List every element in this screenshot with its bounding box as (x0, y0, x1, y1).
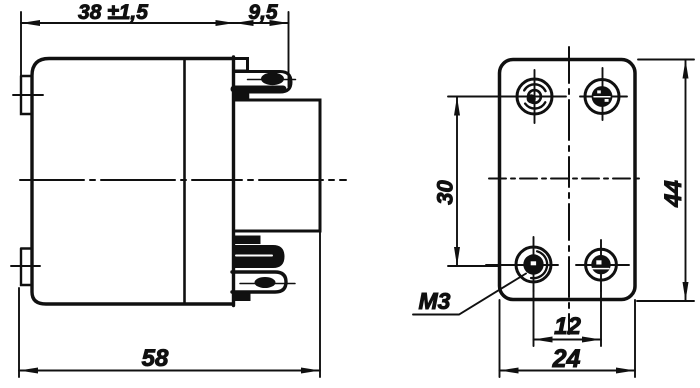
hole bottom-left : cross lines (486, 264, 558, 266)
thread callout M3 : leader line (413, 274, 526, 315)
bottom tab centre tick (11, 265, 40, 267)
hole top-left : dark spot (527, 94, 536, 103)
hole bottom-right : outer circle (586, 249, 617, 280)
svg-text:24: 24 (552, 345, 581, 373)
rear pin A (upper) (234, 247, 283, 267)
dimension 44 : extension bottom (637, 300, 694, 302)
dimension 58 : extension line right (319, 231, 321, 377)
dimension 58 : dimension line (19, 370, 320, 372)
dimension 58 : extension line left (18, 288, 20, 377)
top contact pin (234, 72, 291, 93)
horizontal centre line of side view (20, 179, 346, 181)
dimension 9,5 : extension line right (288, 12, 290, 87)
svg-text:9,5: 9,5 (248, 1, 278, 24)
small lug under top pin (234, 94, 249, 101)
rear pin B hole (dark oval) (255, 277, 276, 288)
svg-text:58: 58 (142, 345, 169, 372)
dimension 38±1,5 : dimension line (21, 22, 235, 24)
dimension 12 : arrows (534, 337, 602, 343)
dimension 58 : arrows (19, 368, 320, 374)
hole bottom-left : outer circle (516, 247, 551, 282)
hole top-left : inner circle (528, 90, 541, 103)
lower rear lug bar (234, 294, 251, 301)
hole top-left : thread arc lower (525, 102, 545, 108)
dimension 44 : extension top (638, 59, 694, 61)
top step block above pin (234, 59, 248, 72)
hole top-right : outer circle (585, 80, 619, 114)
dimension 44 : arrows (683, 60, 689, 302)
rear pin B (lower) (232, 272, 286, 292)
hole bottom-right : cross lines (576, 264, 629, 266)
dimension 30 : extension bottom (448, 265, 498, 267)
hole bottom-left : inner dark disc (523, 254, 543, 274)
dimension 9,5 : arrows (235, 20, 289, 26)
svg-text:38 ±1,5: 38 ±1,5 (78, 1, 148, 24)
hole bottom-left : white centre mark (531, 261, 536, 265)
top tab centre tick (13, 94, 43, 96)
hole bottom-right : inner dark disc (591, 255, 610, 274)
vertical centre line of rear view (568, 47, 570, 334)
svg-text:30: 30 (433, 180, 458, 205)
dimension 38±1,5 : arrows (21, 20, 235, 26)
dimension 44 : dimension line (685, 60, 687, 302)
svg-text:44: 44 (660, 180, 687, 208)
dimension 24 : dimension line (500, 370, 636, 372)
hole top-right : inner dark disc (592, 86, 613, 107)
svg-text:М3: М3 (419, 288, 451, 314)
dimension 9,5 : dimension line (235, 22, 289, 24)
svg-text:12: 12 (554, 313, 581, 340)
top pin centre line (248, 79, 296, 81)
cover seam line (internal vertical) (183, 59, 186, 305)
bottom mounting tab (21, 249, 32, 286)
upper rear lug bar (234, 236, 261, 244)
dimension 38±1,5 : extension line left (20, 12, 22, 76)
dimension 24 : arrows (500, 368, 636, 374)
flange plate outline (rear view) (500, 60, 636, 300)
dimension 30 : arrows (454, 97, 460, 267)
socket base block (234, 100, 321, 231)
hole top-left : outer circle (517, 79, 552, 114)
dimension 12 : extension lines (533, 291, 535, 346)
hole top-right : cross lines (580, 96, 627, 98)
relay body outline (left side view) (32, 57, 234, 306)
hole bottom-right : white slit (593, 268, 610, 270)
horizontal centre line of rear view (489, 178, 644, 180)
dimension 30 : dimension line (456, 97, 458, 267)
top pin hole (dark oval) (261, 73, 284, 86)
dimension 24 : extension lines (499, 300, 501, 377)
top mounting tab (21, 76, 32, 114)
hole bottom-left : thread arc (531, 251, 547, 278)
hole bottom-right : white centre mark (596, 260, 601, 264)
hole top-right : white slits (594, 96, 610, 98)
dimension 12 : dimension line (534, 339, 602, 341)
hole top-left : cross lines (498, 96, 566, 98)
rear pin B centre line (240, 283, 295, 285)
hole top-left : thread arc upper (524, 84, 545, 91)
dimension 30 : extension top (448, 96, 500, 98)
